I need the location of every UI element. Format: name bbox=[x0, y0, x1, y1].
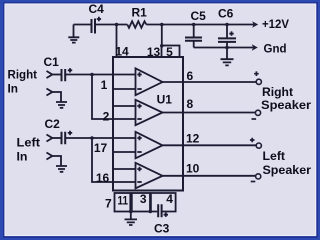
svg-text:14: 14 bbox=[115, 45, 129, 59]
svg-text:5: 5 bbox=[166, 45, 173, 59]
svg-text:C6: C6 bbox=[218, 7, 234, 21]
svg-text:6: 6 bbox=[187, 69, 194, 83]
svg-text:Speaker: Speaker bbox=[263, 163, 312, 177]
svg-text:11: 11 bbox=[118, 194, 129, 208]
svg-text:Left: Left bbox=[17, 136, 41, 150]
svg-text:Gnd: Gnd bbox=[264, 42, 287, 56]
svg-text:C2: C2 bbox=[45, 117, 61, 131]
svg-text:8: 8 bbox=[187, 97, 194, 111]
svg-text:3: 3 bbox=[140, 192, 147, 206]
svg-text:Speaker: Speaker bbox=[261, 98, 311, 112]
svg-text:Right: Right bbox=[8, 68, 38, 82]
svg-text:2: 2 bbox=[103, 109, 110, 123]
svg-text:7: 7 bbox=[105, 196, 112, 210]
svg-text:U1: U1 bbox=[157, 92, 173, 106]
svg-text:+12V: +12V bbox=[262, 17, 289, 31]
svg-text:10: 10 bbox=[186, 162, 200, 176]
svg-text:4: 4 bbox=[166, 192, 173, 206]
svg-text:C4: C4 bbox=[89, 2, 105, 16]
svg-text:In: In bbox=[17, 150, 28, 164]
svg-text:Left: Left bbox=[263, 149, 286, 163]
svg-text:C3: C3 bbox=[154, 222, 170, 236]
svg-text:C1: C1 bbox=[44, 55, 60, 69]
svg-text:1: 1 bbox=[101, 78, 108, 92]
svg-text:17: 17 bbox=[94, 141, 108, 155]
svg-text:In: In bbox=[8, 82, 19, 96]
svg-text:C5: C5 bbox=[191, 9, 207, 23]
svg-text:13: 13 bbox=[147, 45, 161, 59]
svg-text:16: 16 bbox=[96, 171, 110, 185]
svg-text:12: 12 bbox=[186, 132, 200, 146]
svg-text:R1: R1 bbox=[132, 6, 148, 20]
